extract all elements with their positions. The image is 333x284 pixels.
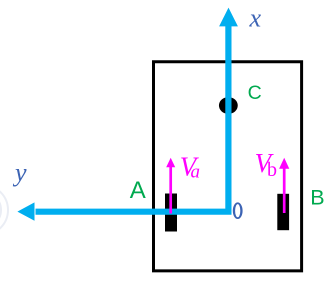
svg-text:b: b xyxy=(267,159,277,181)
svg-text:A: A xyxy=(130,177,146,204)
svg-text:C: C xyxy=(248,82,262,104)
axes: x up / y left (cyan) xyxy=(36,25,229,212)
svg-text:B: B xyxy=(310,186,324,210)
svg-text:x: x xyxy=(249,3,262,32)
svg-text:y: y xyxy=(12,158,27,187)
wheel A (left black rectangle) xyxy=(165,194,177,232)
label O (origin) xyxy=(233,202,243,219)
y-axis arrowhead xyxy=(17,202,34,220)
svg-text:a: a xyxy=(191,162,201,183)
velocity arrow Vb (magenta) xyxy=(283,167,286,213)
robot body rectangle xyxy=(154,62,302,271)
watermark arc (faint, left edge) xyxy=(0,185,8,235)
velocity arrow Va (magenta) xyxy=(169,166,172,214)
wheel B (right black rectangle) xyxy=(277,194,289,230)
x-axis arrowhead xyxy=(219,8,238,27)
point C (black dot on x-axis) xyxy=(219,97,238,114)
